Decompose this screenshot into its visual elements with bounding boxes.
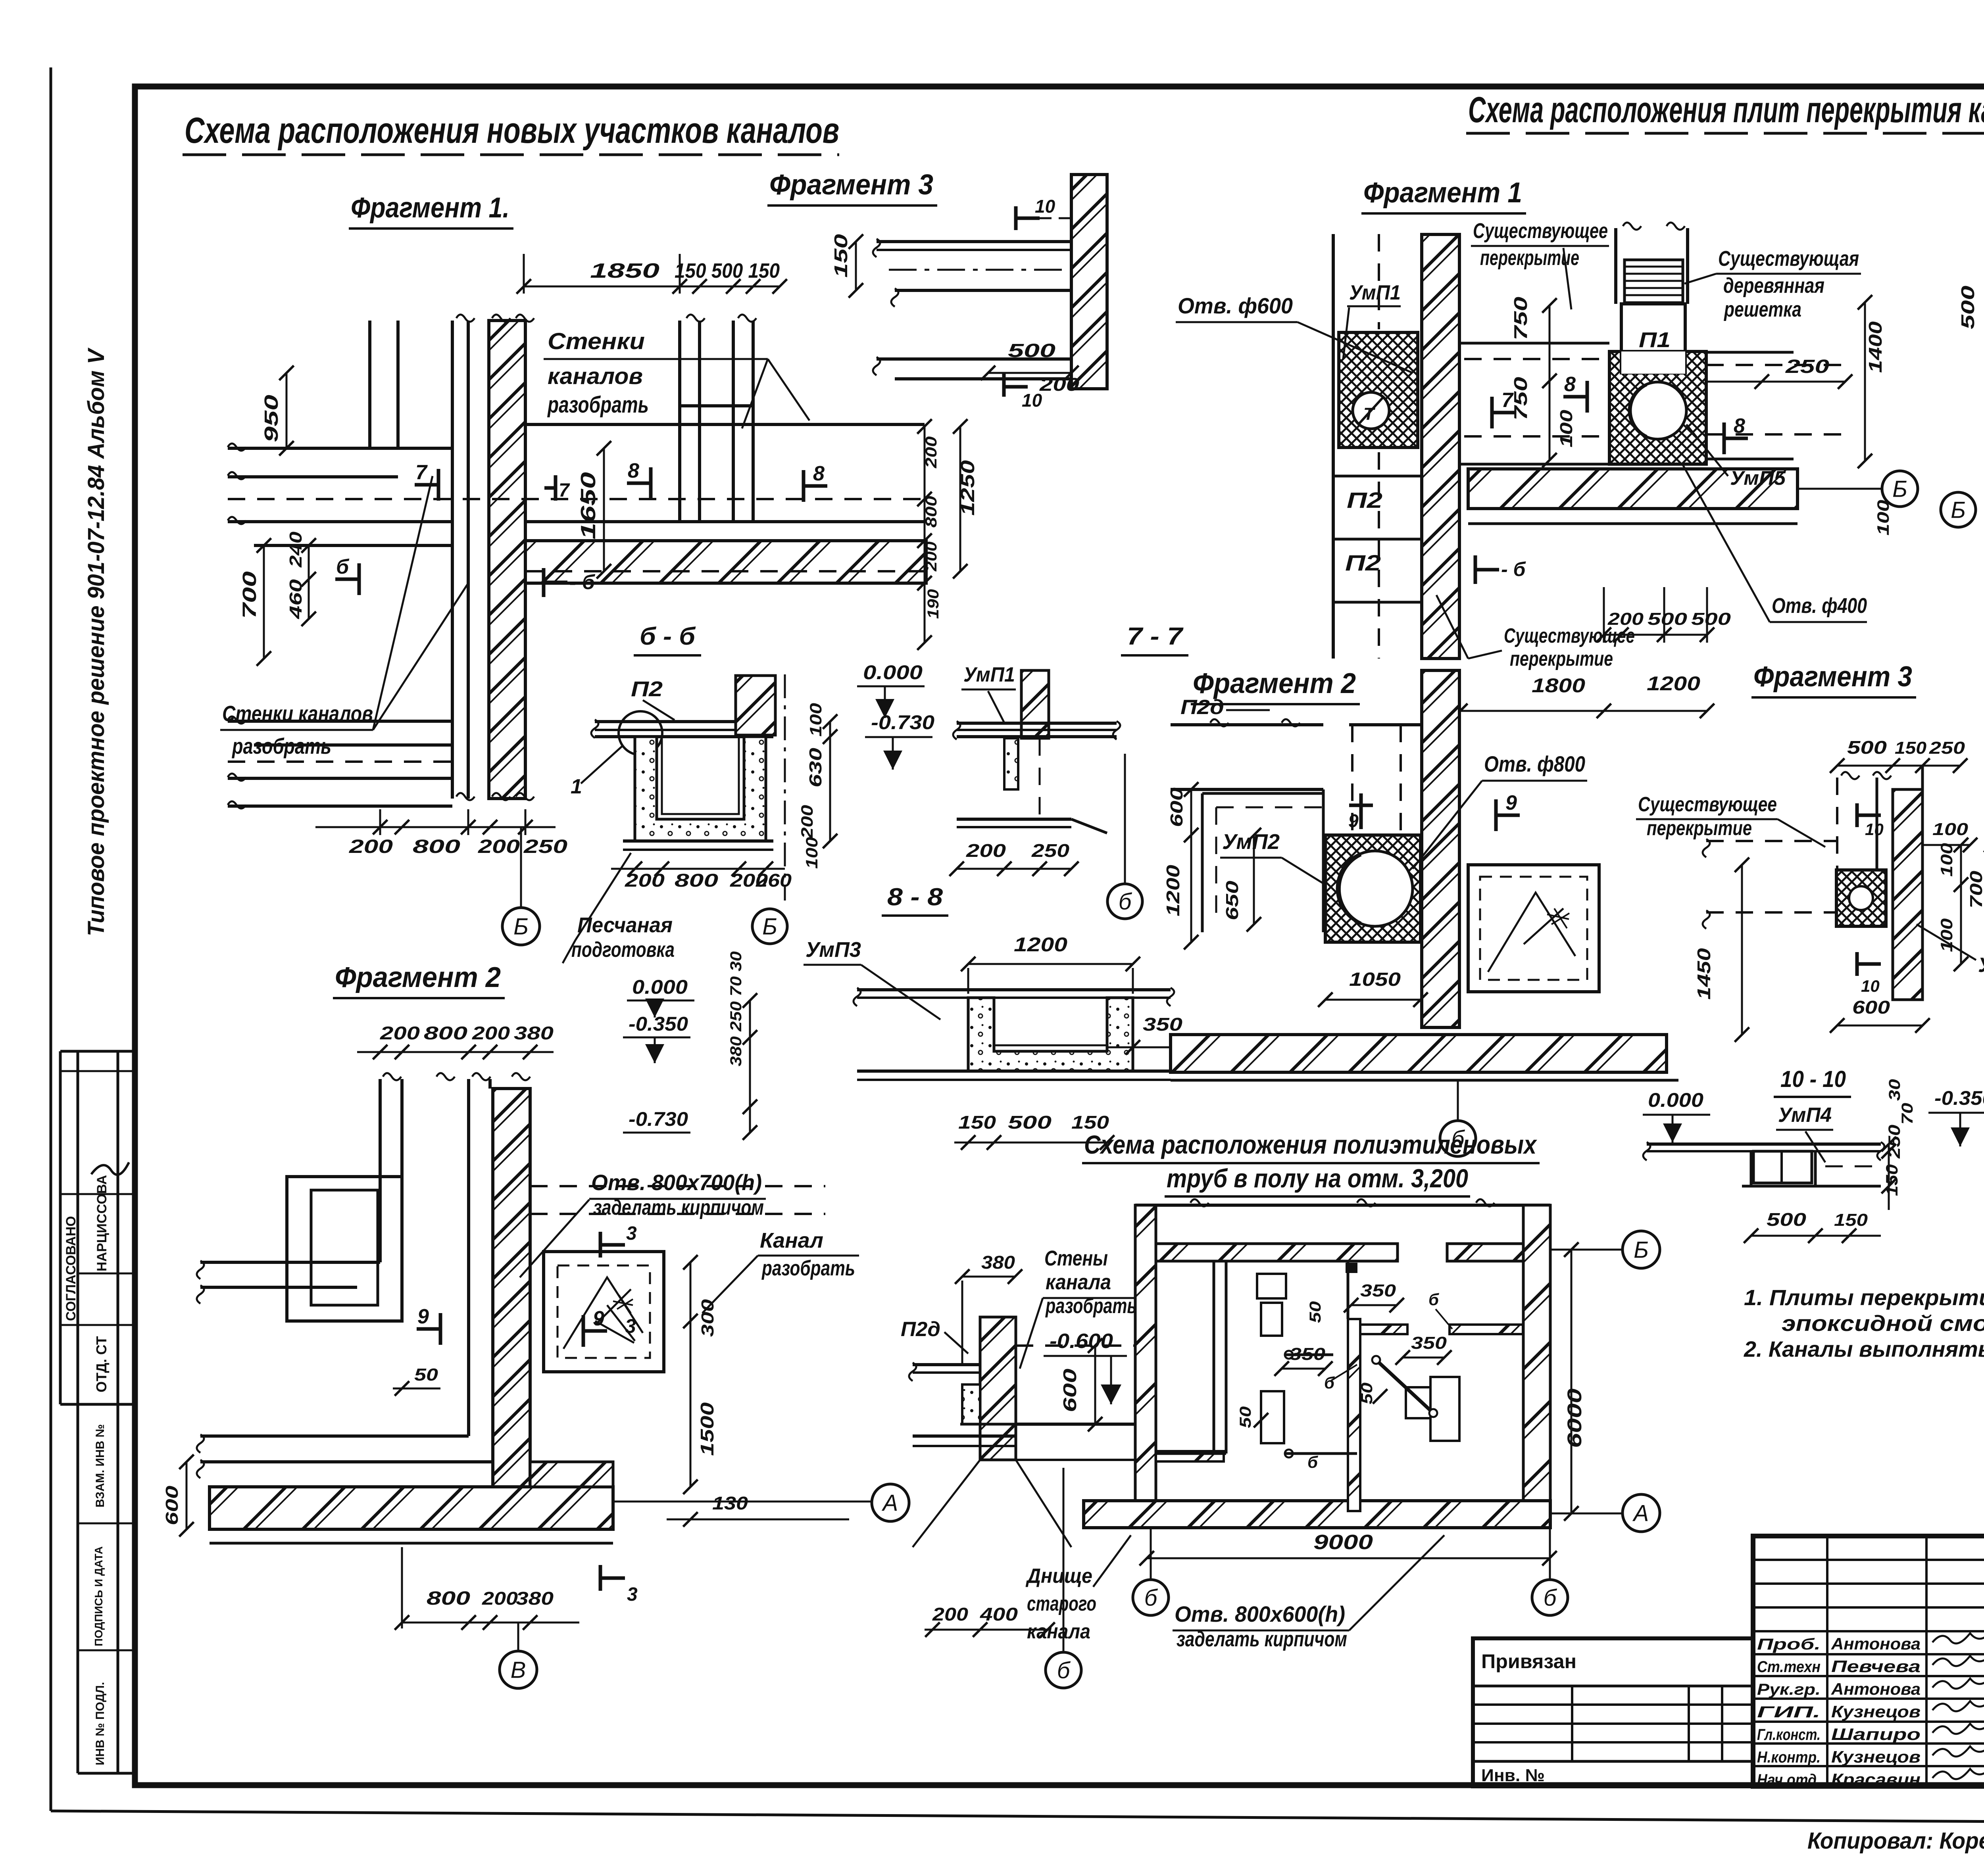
svg-text:1400: 1400 <box>1865 321 1886 373</box>
section mark б <box>358 563 361 595</box>
wall hatched vertical middle <box>1422 670 1459 1027</box>
title block outer <box>1753 1536 1984 1786</box>
svg-text:Б: Б <box>1634 1237 1649 1263</box>
svg-text:П2: П2 <box>631 677 663 701</box>
upper small channel walls <box>678 321 681 522</box>
svg-text:б: б <box>1119 889 1132 914</box>
pipe line 2 <box>1286 1452 1357 1455</box>
grid circle Б right <box>1882 471 1918 507</box>
svg-text:б: б <box>1451 1126 1465 1152</box>
bottom lines 8-8 <box>857 1070 1171 1073</box>
opening circle ф800 <box>1337 851 1413 926</box>
svg-text:Проб.: Проб. <box>1757 1636 1821 1653</box>
svg-text:Певчева: Певчева <box>1831 1657 1921 1676</box>
svg-text:10: 10 <box>1865 820 1884 839</box>
grid circle Б <box>502 908 540 945</box>
dashed inner rect <box>1216 806 1325 808</box>
dashed lower right <box>525 570 925 572</box>
svg-text:8 - 8: 8 - 8 <box>887 883 943 911</box>
svg-text:150: 150 <box>831 234 851 278</box>
svg-text:-0.600: -0.600 <box>1050 1330 1113 1353</box>
svg-text:200: 200 <box>482 1588 518 1609</box>
svg-text:250: 250 <box>1031 840 1070 861</box>
channel liner 8-8 <box>994 998 1107 1045</box>
grid circle Б ф4 left <box>1941 492 1976 527</box>
base plate <box>623 839 773 843</box>
svg-text:380: 380 <box>981 1252 1015 1273</box>
detail circle callout <box>619 711 662 755</box>
scribble cross in opening <box>563 1277 643 1349</box>
svg-text:100: 100 <box>1937 843 1956 877</box>
svg-text:Канал: Канал <box>760 1229 823 1252</box>
svg-text:150 500 150: 150 500 150 <box>675 259 780 282</box>
svg-text:Отв. 800х600(h): Отв. 800х600(h) <box>1175 1601 1345 1626</box>
svg-text:200: 200 <box>1039 374 1080 395</box>
slab step lines <box>1098 222 1101 242</box>
svg-text:600: 600 <box>1852 997 1890 1018</box>
leader to channel walls <box>651 358 768 360</box>
left wall hatched <box>1135 1205 1156 1501</box>
svg-text:7: 7 <box>559 480 570 501</box>
svg-text:600: 600 <box>1167 787 1186 827</box>
channel dashed right of block <box>1706 351 1794 354</box>
outer line f3 <box>1921 766 1924 1000</box>
svg-text:разобрать: разобрать <box>231 734 331 758</box>
svg-text:-0.730: -0.730 <box>629 1108 688 1130</box>
section mark 8 up <box>1586 381 1589 413</box>
bottom lines 7-7 <box>957 818 1071 821</box>
svg-text:1200: 1200 <box>1014 933 1067 956</box>
svg-text:9: 9 <box>1348 810 1359 831</box>
main wall hatched band L-shape <box>210 1089 493 1529</box>
svg-text:200: 200 <box>472 1023 510 1043</box>
opening circle <box>1353 392 1389 429</box>
channel wall lines upper left <box>368 321 371 448</box>
svg-text:1850: 1850 <box>590 259 659 282</box>
svg-text:500: 500 <box>1691 609 1731 629</box>
door stub left of partition <box>1360 1325 1407 1334</box>
crosshatch block УмП2 <box>1325 835 1421 942</box>
svg-text:600: 600 <box>1059 1368 1080 1412</box>
svg-text:Схема расположения полиэтилено: Схема расположения полиэтиленовых <box>1084 1130 1537 1159</box>
wooden grate <box>1624 260 1683 303</box>
svg-text:7: 7 <box>415 461 428 484</box>
svg-text:500: 500 <box>1957 285 1978 329</box>
left channel walls horizontal <box>200 1261 380 1264</box>
grid line А right plan <box>1550 1513 1622 1515</box>
wall bottom break <box>456 793 475 800</box>
svg-text:9: 9 <box>593 1307 604 1330</box>
title block verticals left <box>1826 1536 1828 1786</box>
svg-text:240: 240 <box>286 531 306 568</box>
left channel horizontal walls <box>228 447 452 450</box>
section mark 7 <box>437 469 440 501</box>
grid circle б plan bottom-right <box>1532 1580 1568 1615</box>
wall line left pair <box>467 321 470 799</box>
channel right horizontal lines <box>525 423 925 426</box>
right wall hatched <box>1523 1205 1550 1501</box>
slab top lines <box>877 240 1071 243</box>
privyazan sub-table <box>1473 1638 1753 1786</box>
svg-text:250: 250 <box>523 836 568 857</box>
slab lines 10-10 <box>1647 1142 1881 1146</box>
svg-text:УмП1: УмП1 <box>1349 281 1401 304</box>
pipe line 1 <box>1286 1354 1333 1356</box>
svg-text:700: 700 <box>1967 870 1984 908</box>
grid circle б middle <box>1440 1121 1476 1156</box>
svg-text:ИНВ № ПОДЛ.: ИНВ № ПОДЛ. <box>94 1682 107 1765</box>
svg-text:7 - 7: 7 - 7 <box>1127 623 1184 650</box>
grid circle В <box>500 1651 537 1688</box>
svg-text:Существующее: Существующее <box>1638 793 1777 816</box>
svg-text:500: 500 <box>1008 340 1055 361</box>
svg-text:380: 380 <box>516 1588 554 1609</box>
leader from 3 to opening <box>595 1321 634 1343</box>
grid circle б plan bottom-left <box>1133 1580 1169 1615</box>
svg-text:каналов: каналов <box>548 363 643 389</box>
svg-text:650: 650 <box>1223 880 1242 920</box>
section mark Т7 <box>1490 397 1494 428</box>
svg-text:Отв. 800х700(h): Отв. 800х700(h) <box>591 1170 762 1195</box>
crosshatch block УмП4 <box>1836 870 1886 926</box>
svg-text:канала: канала <box>1027 1620 1090 1643</box>
svg-text:УмП5: УмП5 <box>1730 467 1786 489</box>
svg-text:600: 600 <box>162 1485 182 1525</box>
svg-text:0.000: 0.000 <box>632 976 688 998</box>
svg-text:НАРЦИССОВА: НАРЦИССОВА <box>94 1175 110 1271</box>
svg-text:500: 500 <box>1008 1112 1052 1133</box>
svg-text:380 250 70 30: 380 250 70 30 <box>727 951 745 1066</box>
wall above right hatched <box>736 676 775 735</box>
door stub right room <box>1450 1325 1523 1334</box>
left margin table <box>59 1051 62 1404</box>
svg-text:Нач.отд.: Нач.отд. <box>1757 1771 1821 1789</box>
svg-text:800: 800 <box>413 836 460 857</box>
section mark Т8 <box>1723 422 1726 454</box>
wall vertical hatched <box>489 321 525 799</box>
svg-text:10: 10 <box>1861 977 1880 995</box>
svg-text:1650: 1650 <box>577 472 600 540</box>
svg-text:Т: Т <box>1363 404 1375 424</box>
svg-text:100: 100 <box>1932 820 1969 839</box>
wall hatched right <box>1071 175 1107 389</box>
svg-text:Кузнецов: Кузнецов <box>1831 1747 1921 1766</box>
upper right wall lines <box>1349 723 1422 726</box>
svg-text:1500: 1500 <box>697 1402 717 1456</box>
section mark 10 top <box>1014 206 1018 230</box>
svg-text:ПОДПИСЬ И ДАТА: ПОДПИСЬ И ДАТА <box>92 1546 105 1646</box>
svg-text:200: 200 <box>932 1604 969 1624</box>
signatures scribbles <box>1932 1633 1984 1644</box>
svg-text:Ст.техн: Ст.техн <box>1757 1658 1821 1676</box>
svg-text:9: 9 <box>1505 791 1517 814</box>
svg-text:П2: П2 <box>1345 550 1381 575</box>
slab lines 3-3 <box>913 1363 980 1366</box>
svg-text:0.000: 0.000 <box>863 661 923 684</box>
svg-text:Рук.гр.: Рук.гр. <box>1757 1681 1821 1698</box>
section mark Т-б bottom <box>1474 555 1477 584</box>
svg-text:Н.контр.: Н.контр. <box>1757 1749 1821 1766</box>
svg-text:б: б <box>1057 1657 1071 1683</box>
svg-text:630: 630 <box>806 747 825 787</box>
grid circle Б section <box>752 909 787 944</box>
pier concrete 3-3 <box>962 1384 980 1424</box>
svg-text:УмП3: УмП3 <box>806 938 861 962</box>
svg-text:1200: 1200 <box>1163 864 1183 916</box>
wall vertical hatched right of column <box>1422 234 1459 659</box>
svg-text:Существующая: Существующая <box>1718 247 1859 271</box>
inner window box <box>287 1177 402 1321</box>
svg-text:250: 250 <box>1785 356 1830 377</box>
white opening square right <box>1468 865 1599 992</box>
svg-text:разобрать: разобрать <box>761 1256 855 1280</box>
svg-text:б - б: б - б <box>640 623 696 650</box>
svg-text:800: 800 <box>675 870 719 891</box>
svg-text:500: 500 <box>1847 737 1887 758</box>
floor band extension right <box>530 1462 613 1487</box>
svg-text:10: 10 <box>1022 390 1042 411</box>
channel inner liner <box>662 737 739 814</box>
svg-text:П2д: П2д <box>901 1318 940 1341</box>
svg-text:разобрать: разобрать <box>1045 1294 1137 1318</box>
floor hatched band middle <box>1171 1035 1667 1072</box>
axis to б <box>1124 754 1126 884</box>
svg-text:10: 10 <box>1035 196 1055 217</box>
svg-text:-0.350: -0.350 <box>1934 1087 1984 1109</box>
svg-text:2. Каналы выполнять из кислото: 2. Каналы выполнять из кислотоупорного б… <box>1744 1336 1984 1361</box>
section mark Т9 middle <box>1494 799 1498 831</box>
svg-text:Копировал: Корецкая: Копировал: Корецкая <box>1807 1828 1984 1854</box>
outer wall top line <box>1135 1204 1550 1207</box>
grid circle Б plan <box>1623 1231 1660 1268</box>
dash-dot axis <box>889 269 1071 271</box>
svg-text:100: 100 <box>806 703 825 737</box>
svg-text:Стены: Стены <box>1044 1246 1108 1270</box>
svg-text:50: 50 <box>1358 1383 1376 1404</box>
slab lines <box>595 720 773 723</box>
section mark 10 f3 top <box>1855 803 1859 827</box>
sheet edge bottom <box>51 1811 1984 1825</box>
grid axis line to Б <box>520 827 522 908</box>
axis to б middle <box>1457 1080 1459 1119</box>
svg-text:Фрагмент 3: Фрагмент 3 <box>1753 661 1912 693</box>
channel block 8-8 <box>968 998 1133 1071</box>
svg-text:200: 200 <box>798 805 816 839</box>
svg-text:8: 8 <box>1734 415 1745 438</box>
svg-text:Существующее: Существующее <box>1504 624 1635 647</box>
svg-text:Фрагмент 3: Фрагмент 3 <box>769 169 933 201</box>
svg-text:Привязан: Привязан <box>1481 1650 1576 1672</box>
svg-text:Инв. №: Инв. № <box>1481 1766 1545 1785</box>
grid line Б right plan <box>1550 1249 1622 1251</box>
top wall hatched segment 1 <box>1156 1244 1398 1261</box>
svg-text:150: 150 <box>1895 738 1927 758</box>
slab lines 7-7 <box>957 722 1117 725</box>
svg-text:Шапиро: Шапиро <box>1831 1725 1921 1744</box>
opening circle ф400 <box>1629 382 1686 439</box>
svg-text:200: 200 <box>380 1023 420 1043</box>
wall top break <box>456 315 475 322</box>
leader lower-left <box>373 583 468 730</box>
svg-text:1800: 1800 <box>1532 674 1585 697</box>
signature <box>91 1162 129 1175</box>
svg-text:350: 350 <box>1290 1344 1326 1364</box>
svg-text:200: 200 <box>349 836 393 857</box>
section mark 8 <box>649 467 653 499</box>
equipment rect 1 <box>1257 1274 1286 1298</box>
title block thin top rows <box>1753 1559 1984 1561</box>
wall hatched 3-3 <box>980 1317 1016 1460</box>
grid line to Б right <box>1798 488 1881 490</box>
pipe diagonal <box>1377 1361 1432 1412</box>
svg-text:канала: канала <box>1046 1270 1111 1294</box>
section mark 3 bottom <box>599 1565 602 1591</box>
floor hatched band <box>1468 469 1798 509</box>
channel U concrete <box>635 737 766 841</box>
section mark Т-б <box>542 568 546 597</box>
svg-text:УмП4: УмП4 <box>1778 1104 1832 1127</box>
name rows <box>1753 1653 1984 1655</box>
svg-text:ГИП.: ГИП. <box>1757 1703 1821 1721</box>
wall hatched f3 <box>1893 789 1922 1000</box>
interior wall left room <box>1213 1261 1215 1454</box>
svg-text:250: 250 <box>1929 738 1965 758</box>
svg-text:подготовка: подготовка <box>571 938 675 962</box>
svg-text:-0.730: -0.730 <box>871 711 934 734</box>
svg-text:заделать кирпичом: заделать кирпичом <box>1177 1627 1347 1651</box>
svg-text:перекрытие: перекрытие <box>1647 817 1752 840</box>
square opening with dashed border <box>544 1252 664 1372</box>
svg-text:Антонова: Антонова <box>1831 1634 1921 1653</box>
section mark Т8 <box>802 470 806 502</box>
svg-text:380: 380 <box>514 1023 554 1043</box>
svg-text:Фрагмент 1: Фрагмент 1 <box>1363 177 1522 209</box>
svg-text:Красавин: Красавин <box>1831 1770 1921 1789</box>
svg-text:ОТД. СТ: ОТД. СТ <box>93 1336 110 1392</box>
door threshold black square <box>1346 1263 1357 1273</box>
svg-text:200: 200 <box>478 836 520 857</box>
channel dashed left of block <box>1460 342 1609 345</box>
svg-text:Отв. ф800: Отв. ф800 <box>1484 751 1585 776</box>
slab lines 8-8 <box>857 988 1171 991</box>
svg-text:3: 3 <box>626 1223 637 1244</box>
svg-text:заделать кирпичом: заделать кирпичом <box>593 1196 764 1219</box>
svg-text:разобрать: разобрать <box>547 392 649 418</box>
channel wall verticals <box>379 1079 382 1262</box>
floor line below <box>1468 522 1798 525</box>
grid circle А <box>872 1484 909 1521</box>
grid circle б 7-7 <box>1107 884 1142 919</box>
svg-text:перекрытие: перекрытие <box>1510 647 1613 670</box>
svg-text:7: 7 <box>1501 389 1514 412</box>
svg-text:труб в полу на отм. 3,200: труб в полу на отм. 3,200 <box>1167 1164 1468 1193</box>
equipment rect 1b <box>1261 1303 1282 1336</box>
svg-text:50: 50 <box>414 1365 438 1384</box>
axis line б bottom 1 <box>1150 1529 1152 1580</box>
equipment rect 3a <box>1406 1387 1430 1418</box>
interior middle partition <box>1348 1319 1360 1511</box>
svg-text:П2: П2 <box>1347 488 1382 513</box>
wall corner lines <box>1458 670 1461 1027</box>
svg-text:500: 500 <box>1767 1209 1807 1230</box>
svg-text:эпоксидной смолой ЭД-Б.: эпоксидной смолой ЭД-Б. <box>1782 1311 1984 1336</box>
svg-text:А: А <box>1632 1500 1649 1526</box>
bottom floor hatched band <box>1084 1501 1550 1528</box>
svg-text:1200: 1200 <box>1647 672 1700 695</box>
svg-text:Схема расположения новых участ: Схема расположения новых участков канало… <box>185 110 839 151</box>
existing wall dashed верх <box>1351 725 1353 835</box>
svg-text:950: 950 <box>261 395 282 442</box>
П1 box <box>1621 304 1685 373</box>
svg-text:3: 3 <box>627 1584 638 1605</box>
svg-text:100: 100 <box>1557 409 1576 447</box>
svg-text:700: 700 <box>239 571 260 619</box>
pier concrete 7-7 <box>1004 738 1018 789</box>
section mark 9 middle <box>1349 804 1373 807</box>
svg-text:СОГЛАСОВАНО: СОГЛАСОВАНО <box>63 1216 79 1321</box>
svg-text:Фрагмент 2: Фрагмент 2 <box>1193 668 1356 699</box>
svg-text:190: 190 <box>925 589 942 619</box>
svg-text:300: 300 <box>698 1299 717 1337</box>
dashed column axis <box>1378 234 1380 329</box>
section mark Т9 and 3 leader <box>582 1315 585 1347</box>
svg-text:б: б <box>336 555 350 578</box>
svg-text:8: 8 <box>628 459 639 482</box>
svg-text:1. Плиты перекрытия каналов пе: 1. Плиты перекрытия каналов перед укладк… <box>1744 1285 1984 1310</box>
leader to slab <box>1609 246 1682 262</box>
svg-text:б: б <box>1307 1453 1318 1471</box>
svg-text:150: 150 <box>958 1112 996 1133</box>
floor hatched band right <box>525 541 926 583</box>
svg-text:150: 150 <box>1834 1210 1868 1230</box>
svg-text:350: 350 <box>1143 1014 1183 1035</box>
diagonal leaders 3-3 <box>913 1460 980 1547</box>
grid circle А plan <box>1623 1494 1660 1532</box>
svg-text:750: 750 <box>1510 296 1531 340</box>
svg-text:100: 100 <box>1874 500 1892 536</box>
svg-text:9000: 9000 <box>1313 1531 1373 1554</box>
plan top wall inner line <box>1156 1260 1398 1262</box>
svg-text:старого: старого <box>1027 1592 1096 1615</box>
wall below lines <box>1070 222 1073 389</box>
svg-text:6000: 6000 <box>1563 1388 1586 1448</box>
svg-text:10 - 10: 10 - 10 <box>1780 1066 1846 1092</box>
svg-text:70: 70 <box>1899 1103 1916 1125</box>
svg-text:8: 8 <box>813 462 825 485</box>
dashed channel to right <box>530 1185 825 1187</box>
section mark 10 f3 bottom <box>1855 952 1859 976</box>
svg-text:350: 350 <box>1411 1333 1447 1353</box>
svg-text:Отв. ф400: Отв. ф400 <box>1772 594 1867 618</box>
svg-text:800: 800 <box>427 1588 470 1609</box>
svg-text:Б: Б <box>513 914 529 939</box>
equipment rect 2 <box>1261 1391 1284 1443</box>
svg-text:УмП4: УмП4 <box>1978 954 1984 977</box>
svg-text:30: 30 <box>1886 1079 1903 1101</box>
svg-text:деревянная: деревянная <box>1723 274 1824 298</box>
dashed line 3-3 <box>1016 1344 1151 1347</box>
svg-text:- б: - б <box>1501 558 1526 580</box>
section mark 10 bottom <box>1002 373 1006 397</box>
svg-text:- б: - б <box>569 571 596 594</box>
svg-text:Гл.конст.: Гл.конст. <box>1757 1726 1821 1744</box>
svg-text:9: 9 <box>417 1305 429 1328</box>
section mark 9 <box>439 1313 442 1345</box>
svg-text:200: 200 <box>966 840 1006 861</box>
svg-text:50: 50 <box>1307 1301 1324 1323</box>
svg-text:Отв. ф600: Отв. ф600 <box>1178 293 1293 318</box>
svg-text:130: 130 <box>712 1493 748 1513</box>
